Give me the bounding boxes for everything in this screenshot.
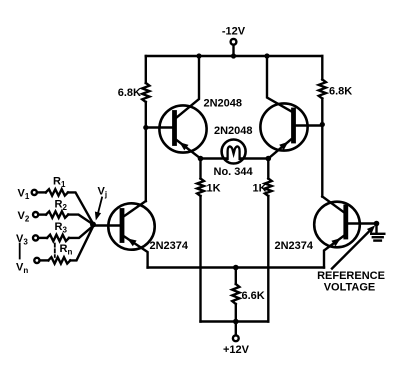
resistor Rn [48, 257, 70, 263]
svg-text:2N2048: 2N2048 [214, 125, 253, 137]
label +12V [223, 344, 250, 356]
terminal V3 [33, 235, 38, 240]
lamp DS1 No.344 [222, 140, 246, 164]
wire R3 to Rn dashed continuation [54, 244, 56, 258]
label lamp No. 344 [214, 166, 254, 178]
terminal V2 [33, 212, 38, 217]
wire reference voltage leader [332, 225, 375, 268]
wire 1K left to bottom rail [199, 196, 201, 322]
resistor 6.8K right [319, 80, 326, 99]
wire Q3 base lead [93, 224, 121, 226]
label input V2 [18, 210, 30, 224]
transistor Q4 2N2374 right [314, 197, 360, 268]
wire V2 to R2 [38, 213, 46, 215]
label transistor Q2 2N2048 [214, 125, 253, 137]
wire 1K right upper stub [267, 159, 269, 179]
svg-text:1K: 1K [207, 183, 221, 195]
terminal -12V [231, 39, 237, 45]
label REFERENCE VOLTAGE [317, 270, 385, 294]
wire 6.6K lower stub [235, 304, 237, 322]
label input V3 [16, 233, 28, 247]
label transistor Q4 2N2374 [275, 240, 314, 252]
wire -12V stub [232, 45, 234, 56]
transistor Q1 2N2048 left [159, 56, 206, 159]
transistor Q2 2N2048 right [260, 56, 307, 159]
label 1K left value [207, 183, 221, 195]
resistor 1K left [197, 179, 204, 197]
node top rail / Q2 collector junction [264, 53, 269, 58]
svg-text:R3: R3 [55, 221, 68, 235]
wire Vj pointer arrow [95, 198, 102, 221]
svg-text:V1: V1 [18, 188, 30, 202]
svg-text:2N2374: 2N2374 [275, 240, 314, 252]
resistor 6.6K [232, 284, 239, 304]
label -12V [222, 26, 246, 38]
wire Q4 base lead to ground [348, 222, 377, 224]
wire Q1 emitter to lamp [201, 157, 228, 159]
transistor Q3 2N2374 left [108, 201, 154, 268]
wire 1K left upper stub [199, 159, 201, 179]
terminal Vn [34, 258, 39, 263]
wire V3 to R3 [38, 237, 47, 239]
node Q4 base / ground junction [374, 221, 380, 227]
wire Vn to Rn [40, 259, 49, 261]
label 1K right value [253, 183, 267, 195]
wire R1 to summing node [68, 192, 93, 223]
wire right branch upper [321, 56, 323, 80]
terminal V1 [32, 190, 37, 195]
svg-text:+12V: +12V [223, 344, 250, 356]
svg-text:VOLTAGE: VOLTAGE [324, 282, 376, 294]
label R2 [55, 199, 68, 213]
wire top rail [146, 55, 322, 57]
svg-text:R2: R2 [55, 199, 68, 213]
svg-text:V2: V2 [18, 210, 30, 224]
label node Vj [98, 186, 108, 200]
node emitter rail / 6.6K junction [233, 265, 239, 271]
svg-text:2N2374: 2N2374 [150, 240, 189, 252]
node Q2 emitter / 1K right junction [266, 156, 272, 162]
resistor R1 [46, 189, 68, 195]
label R1 [53, 176, 66, 190]
svg-text:REFERENCE: REFERENCE [317, 270, 385, 282]
resistor R3 [47, 235, 69, 241]
label Rn [60, 243, 73, 257]
svg-text:1K: 1K [253, 183, 267, 195]
wire lamp to Q2 emitter [240, 157, 268, 159]
terminal +12V [233, 335, 239, 341]
wire Rn to summing node [70, 227, 93, 261]
node 6.8K right / Q2 base junction [320, 122, 325, 127]
label R3 [55, 221, 68, 235]
label transistor Q1 2N2048 [204, 98, 243, 110]
wire R3 to summing node [69, 226, 93, 238]
svg-text:-12V: -12V [222, 26, 246, 38]
resistor R2 [46, 211, 68, 217]
svg-text:6.8K: 6.8K [329, 86, 352, 98]
node bottom rail / +12V junction [233, 319, 239, 325]
wire right branch lower [321, 99, 323, 197]
node Vj summing junction [90, 222, 96, 228]
label transistor Q3 2N2374 [150, 240, 189, 252]
wire 6.6K upper stub [235, 268, 237, 285]
wire left branch lower [145, 102, 147, 201]
node top rail / -12V junction [231, 53, 236, 58]
wire R2 to summing node [68, 215, 93, 225]
label 6.8K left value [118, 87, 141, 99]
svg-text:V3: V3 [16, 233, 28, 247]
wire Q2 base lead [295, 124, 322, 126]
node Q1 emitter / 1K left junction [198, 156, 204, 162]
label 6.6K value [242, 290, 265, 302]
svg-text:6.6K: 6.6K [242, 290, 265, 302]
wire 1K right to bottom rail [267, 196, 269, 322]
wire Q1 base lead [146, 126, 173, 128]
svg-text:No. 344: No. 344 [214, 166, 254, 178]
label input Vn [16, 262, 28, 276]
svg-text:Vn: Vn [16, 262, 28, 276]
label 6.8K right value [329, 86, 352, 98]
wire emitter rail [148, 266, 324, 268]
node 6.8K left / Q1 base junction [143, 125, 148, 130]
resistor 1K right [265, 179, 272, 197]
wire bottom rail [201, 320, 269, 322]
wire V3 to Vn continuation mark [19, 244, 21, 259]
svg-text:2N2048: 2N2048 [204, 98, 243, 110]
wire left branch upper [145, 56, 147, 83]
wire +12V stub [235, 322, 237, 336]
ground symbol [371, 224, 384, 241]
node top rail / Q1 collector junction [196, 53, 201, 58]
svg-text:6.8K: 6.8K [118, 87, 141, 99]
resistor 6.8K left [142, 83, 149, 102]
label input V1 [18, 188, 30, 202]
svg-text:Rn: Rn [60, 243, 73, 257]
svg-text:R1: R1 [53, 176, 66, 190]
wire V1 to R1 [37, 191, 46, 193]
